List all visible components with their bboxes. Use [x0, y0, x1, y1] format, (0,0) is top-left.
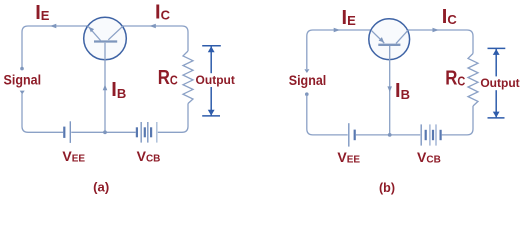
svg-text:Output: Output	[480, 76, 519, 90]
transistor Q2 body circle (b)	[369, 19, 410, 60]
svg-text:IC: IC	[155, 2, 171, 24]
battery V_EE (b) negative short plate	[354, 130, 356, 141]
arrow: I_C current direction on top wire (a)	[150, 24, 156, 28]
wire: signal lower-left segment with corner (b)	[307, 95, 348, 135]
junction dot: base-battery node (b)	[388, 133, 392, 137]
arrow: I_B current direction up (a)	[103, 85, 108, 91]
arrow: I_E current direction on top wire (b)	[334, 28, 340, 32]
wire: emitter top-left segment with corner (b)	[307, 30, 371, 69]
arrow: signal current direction above label (b)	[304, 69, 309, 73]
svg-text:VEE: VEE	[337, 149, 360, 166]
wire: V_EE to base junction (a)	[71, 131, 135, 133]
svg-text:IB: IB	[111, 79, 126, 101]
svg-text:IB: IB	[395, 80, 410, 102]
transistor Q2 collector lead (b)	[396, 30, 408, 43]
svg-text:RC: RC	[445, 66, 465, 89]
svg-text:Signal: Signal	[4, 71, 42, 87]
svg-text:(b): (b)	[379, 180, 395, 195]
label Output (a) on white backing	[195, 73, 237, 87]
svg-text:IC: IC	[442, 6, 458, 28]
label Output (b) on white backing	[480, 76, 522, 90]
arrow: I_E current direction on top wire (a)	[50, 24, 56, 28]
transistor Q2 emitter lead (b)	[371, 30, 384, 43]
svg-text:VEE: VEE	[62, 148, 85, 165]
svg-text:VCB: VCB	[137, 148, 161, 165]
battery V_EE (a) negative short plate	[63, 127, 65, 138]
wire: V_CB to collector bottom-right corner (b)	[442, 106, 473, 135]
wire: signal lower-left segment with corner (a)	[22, 94, 63, 133]
transistor Q1 emitter arrow pointing out (a)	[89, 27, 94, 33]
svg-text:Output: Output	[196, 73, 235, 87]
resistor R_C (a) zigzag	[183, 51, 193, 104]
wire: base lead down to bottom rail (b)	[389, 46, 391, 135]
svg-text:VCB: VCB	[417, 149, 441, 166]
svg-text:IE: IE	[35, 2, 50, 24]
wire: collector top-right segment with corner (b)	[407, 30, 473, 54]
battery V_EE (b) positive long plate	[348, 123, 350, 146]
wire: collector top-right segment with corner (a)	[122, 26, 188, 51]
svg-text:Signal: Signal	[289, 72, 327, 88]
output measure arrow (a)	[202, 46, 221, 116]
node: signal upper terminal dot (a)	[20, 67, 24, 71]
battery V_CB (b) plates long-short alternating	[421, 124, 440, 145]
battery V_EE (a) positive long plate	[69, 121, 71, 143]
arrow: I_B current direction down (b)	[387, 86, 392, 92]
arrow: signal current direction below label (a)	[20, 91, 25, 95]
resistor R_C (b) zigzag	[468, 54, 478, 107]
svg-text:(a): (a)	[93, 179, 109, 194]
svg-text:IE: IE	[342, 7, 357, 29]
wire: base lead down to bottom rail (a)	[104, 43, 106, 133]
wire: V_CB to collector bottom-right corner (a)	[158, 104, 188, 133]
arrow: I_C current direction on top wire (b)	[433, 28, 439, 32]
battery V_CB (a) plates short-long alternating	[137, 122, 157, 143]
transistor Q1 emitter lead (a)	[88, 26, 101, 41]
transistor Q1 base bar (a)	[94, 40, 117, 42]
transistor Q2 emitter arrow pointing in (b)	[379, 37, 385, 42]
node: signal lower terminal dot (b)	[305, 92, 309, 96]
transistor Q2 base bar (b)	[378, 44, 400, 46]
junction dot: base-battery node (a)	[103, 130, 107, 134]
svg-text:RC: RC	[158, 65, 178, 88]
wire: V_EE to base junction (b)	[356, 134, 421, 136]
transistor Q1 body circle (a)	[84, 17, 127, 60]
wire: emitter top-left segment with corner (a)	[22, 26, 88, 68]
transistor Q1 collector lead (a)	[108, 26, 123, 40]
output measure arrow (b)	[488, 48, 506, 118]
